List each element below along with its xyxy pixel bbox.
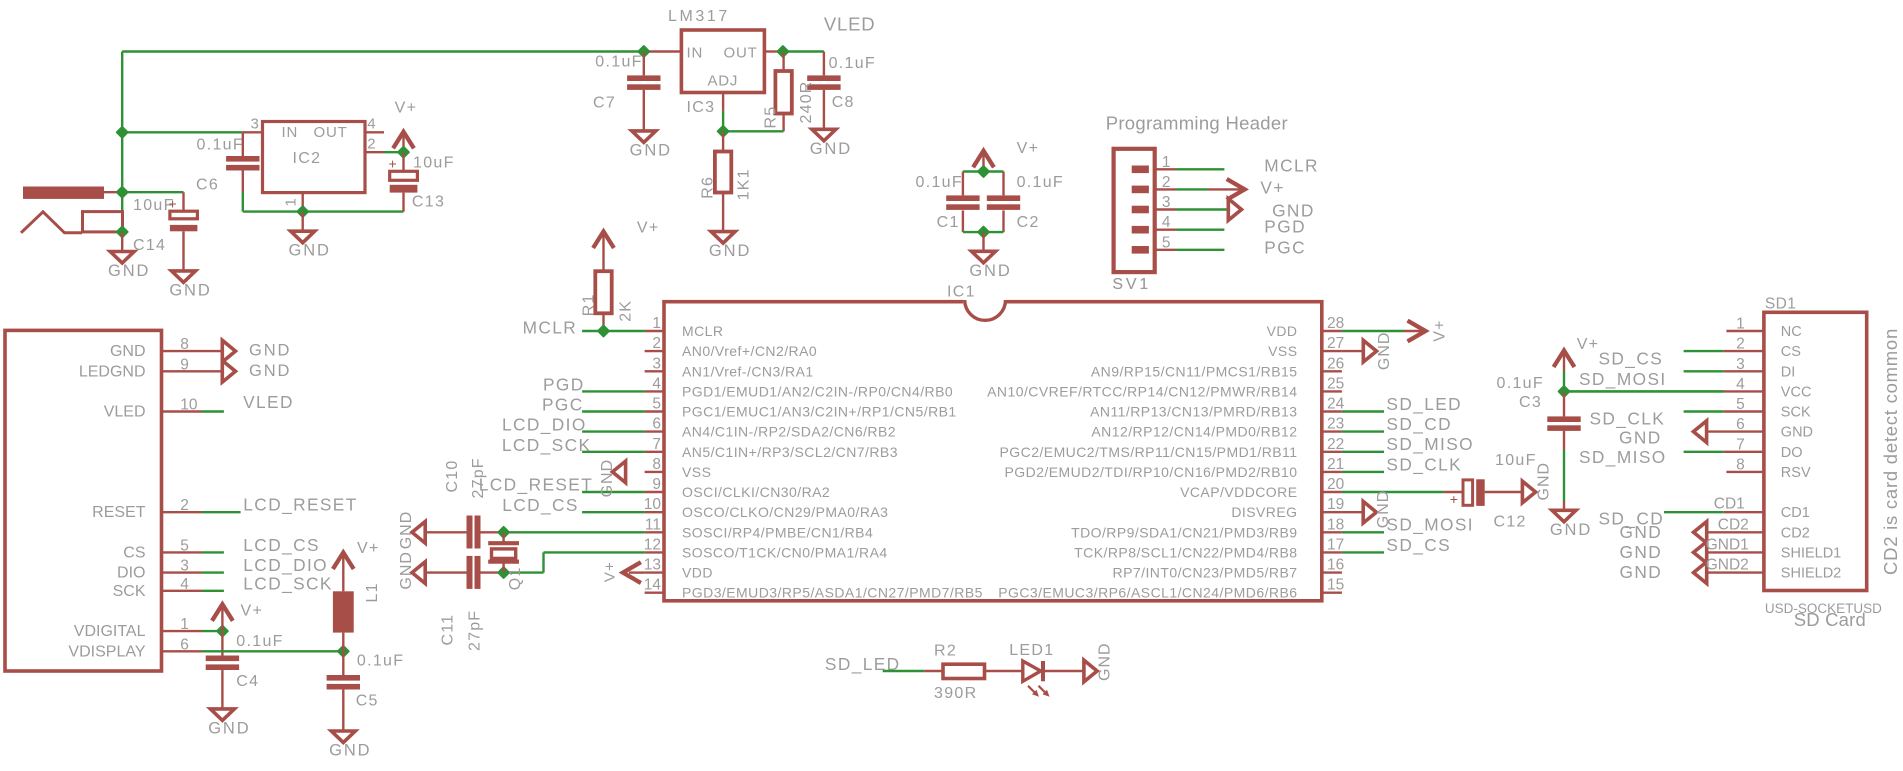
svg-text:GND: GND (630, 141, 672, 159)
svg-text:V+: V+ (395, 100, 418, 117)
svg-text:GND: GND (249, 342, 291, 360)
svg-text:PGD: PGD (1264, 217, 1306, 237)
svg-text:C10: C10 (444, 460, 461, 493)
svg-text:DI: DI (1781, 364, 1796, 380)
svg-text:DO: DO (1781, 445, 1803, 461)
svg-text:RSV: RSV (1781, 465, 1811, 481)
svg-text:PGD3/EMUD3/RP5/ASDA1/CN27/PMD7: PGD3/EMUD3/RP5/ASDA1/CN27/PMD7/RB5 (682, 585, 983, 601)
svg-text:PGC: PGC (542, 395, 584, 415)
svg-text:OUT: OUT (724, 44, 758, 61)
svg-text:1: 1 (652, 315, 661, 332)
svg-text:CD2: CD2 (1781, 525, 1810, 541)
svg-text:C7: C7 (593, 94, 616, 111)
svg-text:AN11/RP13/CN13/PMRD/RB13: AN11/RP13/CN13/PMRD/RB13 (1090, 404, 1297, 420)
svg-text:2: 2 (367, 136, 375, 153)
svg-text:3: 3 (250, 116, 258, 133)
svg-text:C5: C5 (356, 693, 379, 710)
svg-text:28: 28 (1327, 315, 1344, 332)
svg-text:SOSCO/T1CK/CN0/PMA1/RA4: SOSCO/T1CK/CN0/PMA1/RA4 (682, 544, 888, 560)
svg-text:10uF: 10uF (1495, 452, 1537, 469)
svg-text:0.1uF: 0.1uF (595, 54, 642, 71)
svg-text:390R: 390R (934, 685, 977, 702)
svg-text:27: 27 (1327, 335, 1344, 352)
svg-text:V+: V+ (637, 219, 660, 236)
svg-text:CD2 is card detect common: CD2 is card detect common (1880, 328, 1901, 575)
svg-text:GND: GND (1535, 462, 1552, 501)
svg-text:2: 2 (1162, 174, 1171, 191)
svg-text:AN4/C1IN-/RP2/SDA2/CN6/RB2: AN4/C1IN-/RP2/SDA2/CN6/RB2 (682, 424, 896, 440)
svg-text:AN0/Vref+/CN2/RA0: AN0/Vref+/CN2/RA0 (682, 343, 817, 359)
svg-text:0.1uF: 0.1uF (1497, 375, 1544, 392)
svg-text:11: 11 (645, 516, 661, 533)
svg-text:LCD_SCK: LCD_SCK (502, 435, 592, 455)
svg-text:LED1: LED1 (1009, 642, 1054, 659)
svg-text:GND: GND (398, 551, 415, 590)
svg-text:0.1uF: 0.1uF (357, 653, 404, 670)
svg-text:6: 6 (652, 416, 661, 433)
svg-text:0.1uF: 0.1uF (236, 633, 283, 650)
svg-text:13: 13 (644, 557, 661, 574)
svg-text:SD Card: SD Card (1794, 609, 1866, 630)
svg-text:GND: GND (599, 459, 616, 498)
svg-text:LCD_DIO: LCD_DIO (243, 555, 328, 575)
svg-text:VLED: VLED (243, 392, 294, 412)
svg-text:AN1/Vref-/CN3/RA1: AN1/Vref-/CN3/RA1 (682, 363, 814, 379)
svg-text:SD_MISO: SD_MISO (1386, 434, 1474, 454)
svg-text:GND: GND (329, 742, 371, 760)
svg-text:GND: GND (110, 343, 146, 360)
svg-text:V+: V+ (1432, 319, 1449, 341)
svg-text:GND: GND (1550, 521, 1592, 539)
svg-text:VDD: VDD (1267, 323, 1298, 339)
svg-text:GND: GND (1620, 562, 1663, 582)
svg-text:Programming Header: Programming Header (1106, 113, 1288, 134)
svg-text:NC: NC (1781, 324, 1802, 340)
svg-text:AN5/C1IN+/RP3/SCL2/CN7/RB3: AN5/C1IN+/RP3/SCL2/CN7/RB3 (682, 444, 898, 460)
svg-text:C8: C8 (832, 94, 855, 111)
svg-text:27pF: 27pF (470, 457, 487, 498)
svg-text:SHIELD2: SHIELD2 (1781, 566, 1841, 582)
svg-text:R2: R2 (934, 642, 957, 659)
svg-text:GND: GND (208, 719, 250, 737)
svg-text:PGC1/EMUC1/AN3/C2IN+/RP1/CN5/R: PGC1/EMUC1/AN3/C2IN+/RP1/CN5/RB1 (682, 404, 957, 420)
svg-text:18: 18 (1327, 516, 1344, 533)
svg-text:IC1: IC1 (947, 284, 976, 301)
svg-text:2K: 2K (617, 300, 634, 322)
svg-text:C3: C3 (1519, 394, 1542, 411)
svg-text:LM317: LM317 (668, 8, 730, 25)
svg-text:V+: V+ (602, 561, 619, 582)
svg-text:GND: GND (169, 281, 211, 299)
svg-text:23: 23 (1327, 416, 1344, 433)
svg-text:SD_CLK: SD_CLK (1386, 454, 1462, 474)
svg-text:C6: C6 (196, 176, 219, 193)
svg-text:SOSCI/RP4/PMBE/CN1/RB4: SOSCI/RP4/PMBE/CN1/RB4 (682, 524, 873, 540)
svg-text:9: 9 (652, 476, 661, 493)
svg-text:RP7/INT0/CN23/PMD5/RB7: RP7/INT0/CN23/PMD5/RB7 (1113, 565, 1298, 581)
svg-text:TCK/RP8/SCL1/CN22/PMD4/RB8: TCK/RP8/SCL1/CN22/PMD4/RB8 (1074, 544, 1297, 560)
svg-text:OUT: OUT (314, 124, 348, 141)
svg-text:7: 7 (652, 436, 661, 453)
svg-text:1K1: 1K1 (735, 168, 752, 200)
svg-text:IN: IN (687, 44, 704, 61)
svg-text:12: 12 (644, 536, 661, 553)
svg-text:Q1: Q1 (507, 566, 524, 590)
svg-text:GND: GND (1376, 332, 1393, 371)
svg-text:CD2: CD2 (1718, 516, 1749, 533)
svg-text:19: 19 (1327, 496, 1344, 513)
svg-text:C11: C11 (439, 614, 456, 646)
svg-text:RESET: RESET (92, 504, 146, 521)
svg-text:SV1: SV1 (1112, 276, 1151, 293)
svg-text:0.1uF: 0.1uF (829, 55, 876, 72)
svg-text:V+: V+ (1577, 336, 1600, 353)
svg-text:DIO: DIO (117, 565, 145, 582)
svg-text:+: + (1450, 491, 1458, 507)
svg-text:SD_CD: SD_CD (1386, 414, 1452, 434)
svg-text:C13: C13 (412, 193, 445, 210)
svg-text:20: 20 (1327, 476, 1345, 493)
svg-text:+: + (389, 155, 397, 171)
svg-text:PGC3/EMUC3/RP6/ASCL1/CN24/PMD6: PGC3/EMUC3/RP6/ASCL1/CN24/PMD6/RB6 (998, 585, 1297, 601)
svg-text:4: 4 (1162, 214, 1171, 231)
svg-text:22: 22 (1327, 436, 1344, 453)
svg-text:3: 3 (1162, 194, 1171, 211)
svg-text:AN12/RP12/CN14/PMD0/RB12: AN12/RP12/CN14/PMD0/RB12 (1091, 424, 1297, 440)
svg-text:SCK: SCK (113, 583, 146, 600)
svg-text:VSS: VSS (682, 464, 711, 480)
svg-text:GND: GND (969, 262, 1011, 280)
svg-text:IC2: IC2 (293, 150, 322, 167)
svg-text:GND1: GND1 (1706, 536, 1749, 553)
svg-text:SD_LED: SD_LED (1386, 394, 1462, 414)
svg-text:CD1: CD1 (1714, 496, 1745, 513)
svg-text:TDO/RP9/SDA1/CN21/PMD3/RB9: TDO/RP9/SDA1/CN21/PMD3/RB9 (1071, 524, 1297, 540)
svg-text:SCK: SCK (1781, 405, 1811, 421)
svg-text:V+: V+ (1017, 140, 1040, 157)
svg-text:GND2: GND2 (1706, 557, 1749, 574)
svg-text:PGC2/EMUC2/TMS/RP11/CN15/PMD1/: PGC2/EMUC2/TMS/RP11/CN15/PMD1/RB11 (1000, 444, 1298, 460)
svg-text:240R: 240R (798, 80, 815, 123)
svg-text:V+: V+ (357, 540, 380, 557)
svg-text:ADJ: ADJ (708, 73, 739, 90)
svg-text:SD_CS: SD_CS (1599, 348, 1664, 368)
svg-text:R1: R1 (581, 293, 598, 316)
svg-text:3: 3 (652, 355, 661, 372)
svg-text:PGD: PGD (543, 374, 585, 394)
svg-text:LCD_CS: LCD_CS (243, 535, 320, 555)
svg-text:DISVREG: DISVREG (1231, 504, 1297, 520)
svg-text:SD_CLK: SD_CLK (1590, 409, 1666, 429)
svg-text:V+: V+ (241, 603, 264, 620)
svg-text:VLED: VLED (104, 404, 146, 421)
svg-text:GND: GND (1781, 425, 1813, 441)
svg-text:SD_MOSI: SD_MOSI (1386, 515, 1474, 535)
svg-text:C14: C14 (133, 237, 166, 254)
svg-text:4: 4 (652, 375, 661, 392)
svg-text:GND: GND (709, 242, 751, 260)
svg-text:0.1uF: 0.1uF (1017, 174, 1064, 191)
svg-text:LCD_RESET: LCD_RESET (243, 495, 357, 515)
svg-text:GND: GND (398, 511, 415, 550)
svg-text:10: 10 (644, 496, 662, 513)
svg-text:24: 24 (1327, 396, 1345, 413)
svg-text:LEDGND: LEDGND (79, 363, 146, 380)
svg-text:GND: GND (1097, 642, 1114, 681)
svg-text:L1: L1 (364, 582, 381, 602)
svg-text:LCD_SCK: LCD_SCK (243, 573, 333, 593)
svg-text:AN10/CVREF/RTCC/RP14/CN12/PMWR: AN10/CVREF/RTCC/RP14/CN12/PMWR/RB14 (987, 383, 1297, 399)
svg-text:GND: GND (1619, 428, 1662, 448)
svg-text:VDISPLAY: VDISPLAY (68, 643, 145, 660)
svg-text:10uF: 10uF (413, 155, 455, 172)
svg-text:GND: GND (810, 140, 852, 158)
svg-text:15: 15 (1327, 577, 1344, 594)
svg-text:VDIGITAL: VDIGITAL (74, 623, 146, 640)
svg-text:C1: C1 (937, 214, 960, 231)
svg-text:R5: R5 (763, 106, 780, 129)
svg-text:OSCI/CLKI/CN30/RA2: OSCI/CLKI/CN30/RA2 (682, 484, 830, 500)
svg-text:MCLR: MCLR (682, 323, 723, 339)
svg-text:27pF: 27pF (466, 610, 483, 651)
svg-text:LCD_DIO: LCD_DIO (502, 415, 587, 435)
svg-text:C12: C12 (1494, 513, 1527, 530)
svg-text:+: + (169, 196, 177, 212)
svg-text:LCD_RESET: LCD_RESET (479, 475, 593, 495)
svg-text:GND: GND (249, 362, 291, 380)
svg-text:0.1uF: 0.1uF (197, 136, 244, 153)
svg-text:CS: CS (1781, 344, 1801, 360)
svg-text:5: 5 (1162, 234, 1171, 251)
svg-text:OSCO/CLKO/CN29/PMA0/RA3: OSCO/CLKO/CN29/PMA0/RA3 (682, 504, 888, 520)
svg-text:GND: GND (289, 242, 331, 260)
svg-text:PGD2/EMUD2/TDI/RP10/CN16/PMD2/: PGD2/EMUD2/TDI/RP10/CN16/PMD2/RB10 (1004, 464, 1297, 480)
svg-text:25: 25 (1327, 375, 1344, 392)
svg-text:VSS: VSS (1268, 343, 1297, 359)
svg-text:8: 8 (652, 456, 661, 473)
svg-text:1: 1 (283, 198, 300, 206)
svg-text:SD_MOSI: SD_MOSI (1579, 369, 1667, 389)
svg-text:SHIELD1: SHIELD1 (1781, 545, 1841, 561)
svg-text:VDD: VDD (682, 565, 713, 581)
svg-text:IC3: IC3 (687, 99, 716, 116)
svg-text:0.1uF: 0.1uF (916, 174, 963, 191)
svg-text:PGD1/EMUD1/AN2/C2IN-/RP0/CN4/R: PGD1/EMUD1/AN2/C2IN-/RP0/CN4/RB0 (682, 383, 953, 399)
svg-text:CS: CS (123, 544, 145, 561)
svg-text:21: 21 (1327, 456, 1344, 473)
svg-text:MCLR: MCLR (1264, 156, 1319, 176)
svg-text:16: 16 (1327, 557, 1344, 574)
svg-text:PGC: PGC (1264, 238, 1306, 258)
svg-text:17: 17 (1327, 536, 1344, 553)
svg-text:V+: V+ (1260, 178, 1284, 198)
svg-text:VLED: VLED (824, 13, 876, 34)
svg-text:5: 5 (652, 396, 661, 413)
svg-text:1: 1 (1162, 154, 1171, 171)
svg-text:IN: IN (282, 124, 299, 141)
svg-text:R6: R6 (699, 176, 716, 199)
svg-text:LCD_CS: LCD_CS (502, 495, 579, 515)
svg-text:2: 2 (652, 335, 661, 352)
svg-text:4: 4 (367, 116, 375, 133)
svg-text:CD1: CD1 (1781, 505, 1810, 521)
svg-text:VCAP/VDDCORE: VCAP/VDDCORE (1180, 484, 1297, 500)
svg-text:SD1: SD1 (1765, 295, 1796, 312)
svg-text:VCC: VCC (1781, 384, 1812, 400)
svg-text:C4: C4 (236, 673, 259, 690)
svg-text:AN9/RP15/CN11/PMCS1/RB15: AN9/RP15/CN11/PMCS1/RB15 (1091, 363, 1298, 379)
svg-text:GND: GND (1620, 542, 1663, 562)
svg-text:C2: C2 (1017, 214, 1040, 231)
svg-text:SD_CS: SD_CS (1386, 535, 1451, 555)
svg-text:26: 26 (1327, 355, 1344, 372)
svg-text:GND: GND (108, 262, 150, 280)
svg-text:SD_MISO: SD_MISO (1579, 447, 1667, 467)
svg-text:GND: GND (1620, 522, 1663, 542)
svg-text:MCLR: MCLR (523, 317, 578, 337)
svg-text:14: 14 (644, 577, 662, 594)
